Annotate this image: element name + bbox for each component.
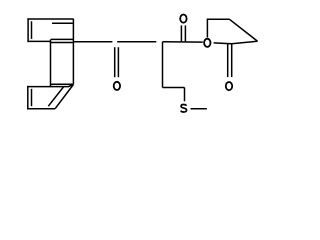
ring C top bond with mitered right end (27, 85, 73, 87)
ring A left edge inner double-bond line (31, 21, 33, 39)
ring C bottom bond (27, 108, 55, 110)
ring A top edge (27, 18, 73, 20)
cage diagonal double bond main line (55, 85, 73, 109)
bond ester O to lactone carbonyl C2 (214, 42, 232, 45)
ring A top-right inner double-bond line (52, 22, 73, 24)
chain bond ketone to CH vertex (117, 41, 156, 43)
ketone C=O double bond right line (117, 47, 119, 77)
lactone ring diagonal bond (229, 19, 257, 41)
ring A/B shared right vertical bond (72, 19, 74, 84)
ring A bottom-left bond (27, 40, 50, 42)
ester C=O double bond right line (184, 25, 186, 41)
chain bond cage to ketone carbon (73, 41, 112, 43)
lactone C=O double bond right line (231, 43, 233, 77)
cage diagonal double bond inner line (48, 86, 64, 106)
ring B bottom bond (51, 83, 74, 85)
side chain vertical CH2-CH2 (162, 42, 164, 88)
lactone ring top bond (207, 18, 230, 20)
chain bond CH vertex to ester carbonyl and ester O (163, 41, 203, 43)
ring B left vertical bond (50, 39, 52, 86)
ester C=O double bond left line (180, 25, 182, 41)
ring A left edge (outer line of double bond) (27, 18, 29, 42)
bond lactone carbonyl C2 to ring C3 (232, 41, 258, 44)
lactone ring O-CH2 vertical bond (206, 19, 208, 37)
bond CH2 down to S (184, 88, 186, 102)
side chain horizontal CH2 bond (163, 87, 185, 89)
thioether S label (181, 104, 187, 111)
ring A bottom-right double bond inner line (51, 38, 74, 40)
ketone C=O double bond left line (114, 47, 116, 77)
ester O label (204, 39, 210, 47)
bond S to methyl (191, 108, 207, 110)
ring A bottom-right double bond main line (51, 42, 74, 44)
ring C left edge inner double-bond line (31, 89, 33, 106)
ketone O label (114, 82, 120, 90)
ester carbonyl O label (180, 15, 186, 23)
lactone carbonyl O label (226, 82, 232, 90)
lactone C=O double bond left line (227, 43, 229, 77)
ring C left edge (outer line of double bond) (27, 86, 29, 110)
